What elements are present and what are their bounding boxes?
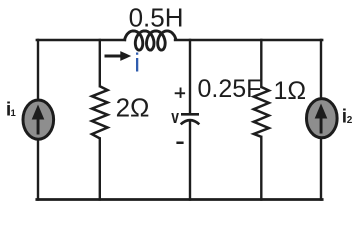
current source I2 arrow (315, 104, 328, 134)
resistor R1 2ohm zigzag (92, 86, 108, 138)
svg-text:2Ω: 2Ω (116, 92, 150, 122)
wire: 1-ohm branch top stub (260, 40, 262, 87)
svg-text:1Ω: 1Ω (274, 77, 307, 105)
capacitor C1 top plate (181, 113, 199, 116)
wire: 1-ohm branch bottom stub (260, 137, 262, 200)
resistor R2 1ohm zigzag (254, 87, 269, 137)
wire: top rail right segment (175, 39, 322, 41)
wire: capacitor branch top stub (189, 40, 191, 114)
inductor L1 0.5H coil (124, 31, 176, 50)
svg-text:i1: i1 (6, 99, 17, 121)
svg-text:0.25F: 0.25F (198, 75, 262, 103)
current source I1 circle (23, 100, 54, 139)
wire: left rail (37, 40, 39, 200)
current source I2 circle (307, 99, 338, 138)
wire: top rail left segment (37, 39, 125, 41)
svg-text:0.5H: 0.5H (129, 3, 184, 33)
wire: 2-ohm branch bottom stub (99, 138, 101, 199)
svg-text:i2: i2 (342, 107, 353, 128)
label + (capacitor polarity) (175, 88, 185, 98)
wire: right rail (320, 40, 322, 200)
wire: bottom rail (37, 198, 322, 201)
label - (capacitor polarity) (176, 142, 183, 145)
wire: capacitor branch bottom stub (189, 122, 191, 200)
svg-text:i: i (134, 47, 140, 77)
svg-text:v: v (171, 107, 179, 127)
capacitor C1 bottom curved plate (181, 120, 200, 124)
current source I1 arrow (32, 105, 45, 135)
current arrow i on top-left branch (105, 51, 132, 61)
wire: 2-ohm branch top stub (99, 40, 101, 86)
